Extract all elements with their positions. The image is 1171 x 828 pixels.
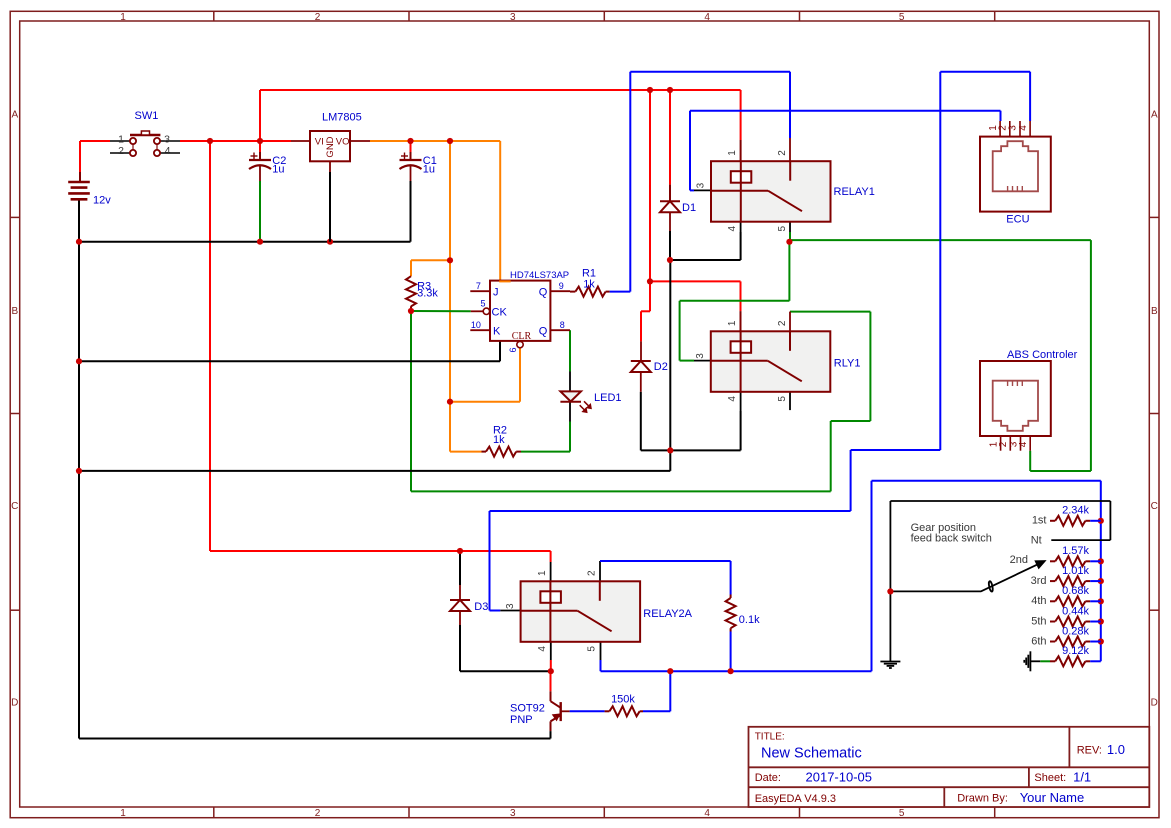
svg-text:GND: GND [325,136,336,157]
svg-text:3: 3 [510,808,516,819]
svg-text:2: 2 [777,150,788,156]
svg-text:9: 9 [559,281,564,291]
svg-text:1: 1 [120,12,126,23]
svg-text:Q: Q [539,325,548,337]
svg-text:B: B [11,306,18,317]
svg-text:D: D [1151,698,1158,709]
svg-text:5: 5 [899,808,905,819]
svg-text:CLR: CLR [512,331,532,342]
svg-text:2: 2 [777,320,788,326]
svg-text:2nd: 2nd [1010,554,1028,566]
svg-text:1u: 1u [272,164,284,176]
svg-text:A: A [11,110,18,121]
svg-text:3: 3 [695,182,706,188]
svg-text:3: 3 [164,133,170,145]
svg-text:J: J [493,286,499,298]
svg-text:5: 5 [777,396,788,402]
svg-text:8: 8 [560,320,565,330]
svg-text:feed back switch: feed back switch [911,532,992,544]
svg-text:0.44k: 0.44k [1062,605,1089,617]
svg-text:5: 5 [587,646,598,652]
svg-text:12v: 12v [93,195,111,207]
svg-text:2017-10-05: 2017-10-05 [806,769,873,784]
svg-text:SOT92: SOT92 [510,703,545,715]
svg-text:3: 3 [510,12,516,23]
svg-text:Sheet:: Sheet: [1034,772,1066,784]
svg-text:6th: 6th [1031,635,1046,647]
svg-text:SW1: SW1 [135,110,159,122]
svg-text:D: D [11,698,18,709]
svg-text:2: 2 [587,570,598,576]
svg-text:7: 7 [476,281,481,291]
svg-text:PNP: PNP [510,714,533,726]
svg-text:B: B [1151,306,1158,317]
svg-text:VO: VO [336,136,350,147]
svg-text:Drawn By:: Drawn By: [957,793,1008,805]
svg-text:1u: 1u [423,164,435,176]
svg-text:Date:: Date: [755,772,781,784]
svg-text:2: 2 [315,808,321,819]
svg-text:A: A [1151,110,1158,121]
svg-text:3: 3 [505,603,516,609]
svg-text:3: 3 [695,353,706,359]
svg-text:Your Name: Your Name [1020,790,1085,805]
svg-text:4: 4 [1018,125,1029,131]
svg-text:3.3k: 3.3k [417,288,438,300]
svg-text:CK: CK [492,307,508,319]
svg-text:New Schematic: New Schematic [761,746,862,762]
svg-text:1st: 1st [1032,515,1047,527]
svg-text:1k: 1k [493,434,505,446]
svg-text:EasyEDA V4.9.3: EasyEDA V4.9.3 [755,793,836,805]
svg-text:0.1k: 0.1k [739,614,760,626]
svg-text:Q: Q [539,286,548,298]
svg-text:RELAY1: RELAY1 [834,186,875,198]
svg-text:TITLE:: TITLE: [755,732,785,743]
svg-text:C: C [1151,501,1158,512]
svg-text:3rd: 3rd [1031,575,1047,587]
svg-text:C: C [11,501,18,512]
svg-text:ECU: ECU [1006,213,1029,225]
svg-text:4: 4 [704,12,710,23]
svg-text:4th: 4th [1031,595,1046,607]
svg-text:4: 4 [727,225,738,231]
svg-text:4: 4 [1018,441,1029,447]
svg-text:5: 5 [777,225,788,231]
svg-text:4: 4 [537,646,548,652]
svg-text:0.68k: 0.68k [1062,585,1089,597]
svg-text:1.57k: 1.57k [1062,545,1089,557]
svg-text:1: 1 [727,320,738,326]
svg-text:D1: D1 [682,202,696,214]
svg-text:0.28k: 0.28k [1062,625,1089,637]
svg-text:150k: 150k [611,693,635,705]
svg-text:1.0: 1.0 [1107,742,1125,757]
svg-text:5: 5 [480,299,485,309]
svg-text:9.12k: 9.12k [1062,645,1089,657]
svg-text:LED1: LED1 [594,392,622,404]
svg-text:6: 6 [508,347,518,352]
svg-text:5: 5 [899,12,905,23]
svg-text:RELAY2A: RELAY2A [643,608,692,620]
svg-text:2: 2 [118,145,124,157]
svg-text:1: 1 [727,150,738,156]
svg-text:2: 2 [315,12,321,23]
svg-text:5th: 5th [1031,615,1046,627]
svg-text:K: K [493,325,501,337]
svg-text:1: 1 [118,133,124,145]
svg-text:HD74LS73AP: HD74LS73AP [510,270,569,281]
svg-text:1/1: 1/1 [1073,769,1091,784]
svg-text:Nt: Nt [1031,535,1042,547]
svg-text:1.01k: 1.01k [1062,565,1089,577]
svg-text:REV:: REV: [1077,745,1102,757]
svg-text:10: 10 [471,320,481,330]
svg-text:LM7805: LM7805 [322,112,362,124]
svg-text:1: 1 [120,808,126,819]
svg-text:1k: 1k [583,278,595,290]
svg-text:4: 4 [165,145,171,157]
svg-text:D2: D2 [654,361,668,373]
svg-text:VI: VI [315,136,324,147]
svg-text:RLY1: RLY1 [834,357,861,369]
svg-text:1: 1 [537,570,548,576]
svg-text:4: 4 [727,396,738,402]
svg-text:4: 4 [704,808,710,819]
svg-text:ABS Controler: ABS Controler [1007,349,1078,361]
svg-text:D3: D3 [474,601,488,613]
svg-text:2.34k: 2.34k [1062,505,1089,517]
